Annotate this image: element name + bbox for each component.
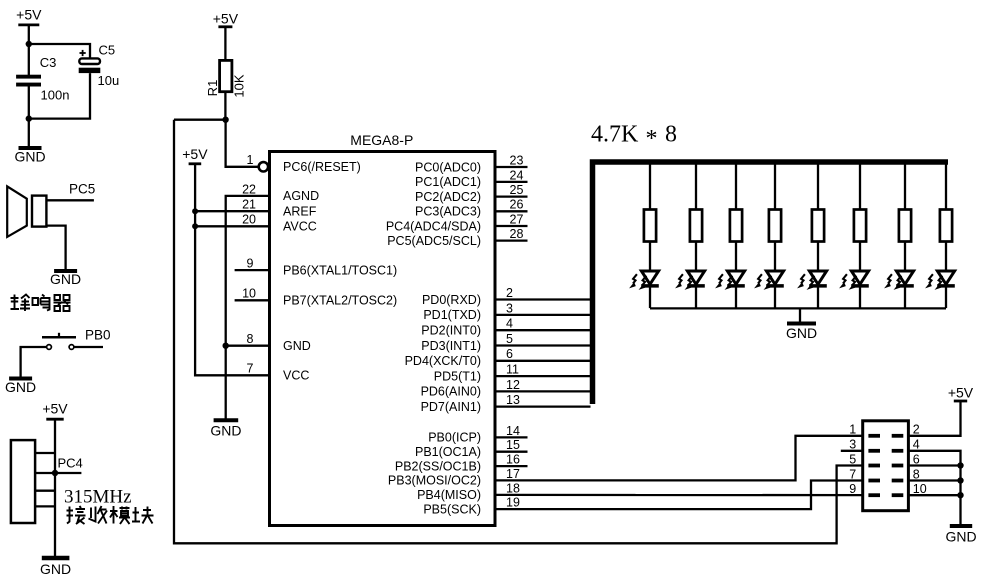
node junction pin 6 [957, 462, 963, 468]
speaker LS (buzzer) horn [7, 186, 27, 237]
svg-text:7: 7 [247, 362, 254, 376]
svg-text:10K: 10K [231, 74, 246, 97]
resistor R1 [205, 60, 246, 97]
svg-text:+5V: +5V [16, 7, 42, 23]
pin 28 PC5(ADC5/SCL) [387, 227, 527, 248]
wire GND pin 8 [226, 345, 270, 347]
pin 13 PD7(AIN1) [421, 393, 591, 414]
wire connector pin 3 stub [841, 450, 863, 452]
svg-text:PB5(SCK): PB5(SCK) [423, 502, 481, 516]
resistor RN8 4.7K [940, 165, 952, 242]
svg-text:5: 5 [506, 332, 513, 346]
resistor RN2 4.7K [690, 165, 702, 242]
svg-text:17: 17 [506, 467, 520, 481]
node junction PC4 [52, 470, 58, 476]
LED D5 [798, 242, 827, 309]
svg-text:16: 16 [506, 453, 520, 467]
pin 3 PD1(TXD) [423, 301, 590, 322]
svg-text:9: 9 [247, 257, 254, 271]
svg-text:20: 20 [242, 213, 256, 227]
wire AGND pin 22 jog down [226, 196, 270, 419]
wire AVCC pin 20 [195, 225, 269, 227]
pin 9 PB6(XTAL1/TOSC1) [235, 257, 398, 278]
pin 15 PB1(OC1A) [415, 438, 528, 459]
svg-text:PD1(TXD): PD1(TXD) [423, 308, 481, 322]
wire +5V stem to node [28, 25, 30, 45]
label 接收模块 (receiver module) [67, 506, 154, 524]
svg-text:18: 18 [506, 481, 520, 495]
resistor RN5 4.7K [812, 165, 824, 242]
svg-text:+5V: +5V [42, 401, 68, 417]
svg-text:AGND: AGND [283, 189, 319, 203]
svg-text:PD6(AIN0): PD6(AIN0) [421, 385, 481, 399]
svg-text:PB7(XTAL2/TOSC2): PB7(XTAL2/TOSC2) [283, 294, 397, 308]
svg-text:10: 10 [242, 287, 256, 301]
pin 6 PD4(XCK/T0) [405, 347, 591, 368]
pin 24 PC1(ADC1) [415, 168, 528, 189]
bus (thick) to resistor network [593, 162, 949, 404]
svg-text:+5V: +5V [182, 146, 208, 162]
node junction pin 10 [957, 492, 963, 498]
node junction GND pin 8 [223, 343, 229, 349]
capacitor C5 (polarized, 10u) [79, 43, 120, 88]
connector J1 pins 1/2 [849, 423, 920, 438]
svg-text:PB0(ICP): PB0(ICP) [428, 431, 481, 445]
svg-text:PC3(ADC3): PC3(ADC3) [415, 205, 481, 219]
svg-text:C5: C5 [99, 43, 116, 58]
svg-text:12: 12 [506, 378, 520, 392]
svg-text:GND: GND [14, 149, 45, 165]
pin 26 PC3(ADC3) [415, 198, 528, 219]
wire connector pin 6 [908, 464, 960, 466]
svg-text:GND: GND [5, 379, 36, 395]
svg-text:11: 11 [506, 363, 519, 377]
node junction C3/C5 top [26, 41, 32, 47]
connector J1 pins 5/6 [849, 452, 920, 467]
resistor RN6 4.7K [854, 165, 866, 242]
wire connector pin 2 to +5V [908, 401, 960, 436]
svg-text:VCC: VCC [283, 369, 309, 383]
svg-text:GND: GND [945, 529, 976, 545]
pin 18 PB4(MISO) [417, 481, 520, 502]
wire node down to C3 [28, 44, 30, 75]
resistor RN4 4.7K [769, 165, 781, 242]
svg-text:GND: GND [786, 325, 817, 341]
svg-text:PC0(ADC0): PC0(ADC0) [415, 160, 481, 174]
svg-text:AREF: AREF [283, 205, 317, 219]
svg-text:14: 14 [506, 424, 520, 438]
svg-text:4.7K: 4.7K [591, 122, 639, 148]
LED D2 [676, 242, 705, 309]
svg-text:10: 10 [913, 482, 927, 496]
svg-text:+5V: +5V [948, 384, 974, 400]
svg-text:PB0: PB0 [85, 328, 111, 343]
svg-text:AVCC: AVCC [283, 220, 317, 234]
wire node to C5 top [29, 44, 90, 58]
wire reset node down to pin 1 [226, 120, 259, 167]
resistor RN1 4.7K [644, 165, 656, 242]
pin 12 PD6(AIN0) [421, 378, 591, 399]
svg-text:3: 3 [849, 438, 856, 452]
wire AREF pin 21 [195, 210, 269, 212]
node junction AVCC [192, 223, 198, 229]
svg-text:10u: 10u [98, 73, 120, 88]
pin 17 PB3(MOSI/OC2) [388, 467, 520, 488]
svg-text:GND: GND [50, 271, 81, 287]
wire connector pin 4 to GND rail [908, 451, 960, 524]
svg-text:PD2(INT0): PD2(INT0) [421, 324, 481, 338]
node junction C3/C5 bottom [26, 115, 32, 121]
svg-text:GND: GND [283, 339, 311, 353]
wire LED cathode rail [650, 307, 946, 309]
wire MOSI pin 17 to connector pin 1 [495, 436, 863, 481]
svg-text:PD4(XCK/T0): PD4(XCK/T0) [405, 354, 481, 368]
speaker driver body [32, 196, 46, 227]
svg-text:1: 1 [247, 153, 254, 167]
svg-text:5: 5 [849, 452, 856, 466]
svg-text:4: 4 [913, 438, 920, 452]
LED D1 [630, 242, 659, 309]
pin 7 VCC [247, 362, 310, 383]
svg-text:PD7(AIN1): PD7(AIN1) [421, 400, 481, 414]
svg-text:*: * [646, 126, 658, 152]
svg-text:19: 19 [506, 496, 520, 510]
svg-text:MEGA8-P: MEGA8-P [350, 132, 413, 148]
svg-text:15: 15 [506, 438, 520, 452]
svg-text:C3: C3 [40, 55, 57, 70]
module U2 315MHz receiver body [11, 440, 35, 523]
svg-text:2: 2 [913, 423, 920, 437]
svg-text:PC4: PC4 [58, 456, 83, 471]
node junction AREF [192, 208, 198, 214]
pin 1 inversion circle [259, 162, 268, 171]
svg-text:9: 9 [849, 482, 856, 496]
power +5V (connector) [948, 384, 974, 401]
svg-text:PB3(MOSI/OC2): PB3(MOSI/OC2) [388, 474, 481, 488]
svg-text:315MHz: 315MHz [64, 487, 132, 508]
wire module +5V rail down to ground [54, 419, 56, 556]
wire C3 bottom to ground [28, 86, 30, 146]
svg-text:PD5(T1): PD5(T1) [434, 369, 481, 383]
svg-text:23: 23 [510, 153, 524, 167]
LED D6 [840, 242, 869, 309]
wire module pin 2 (net PC4) [35, 472, 81, 474]
power +5V (module) [42, 401, 68, 420]
power +5V (R1) [213, 11, 239, 27]
svg-text:+5V: +5V [213, 11, 239, 27]
pin 19 PB5(SCK) [423, 496, 520, 517]
wire +5V to R1 [224, 27, 226, 61]
connector J1 pins 7/8 [849, 467, 920, 482]
pin 11 PD5(T1) [434, 363, 591, 384]
svg-text:PC4(ADC4/SDA): PC4(ADC4/SDA) [386, 219, 481, 233]
pin 27 PC4(ADC4/SDA) [386, 212, 528, 233]
node junction reset [222, 117, 228, 123]
svg-text:PB2(SS/OC1B): PB2(SS/OC1B) [395, 459, 481, 473]
svg-text:PC6(/RESET): PC6(/RESET) [283, 160, 361, 174]
wire speaker top to PC5 [46, 199, 94, 201]
ground (IC) [210, 420, 241, 438]
ground (connector) [945, 526, 976, 545]
svg-text:PB6(XTAL1/TOSC1): PB6(XTAL1/TOSC1) [283, 263, 397, 277]
resistor RN3 4.7K [730, 165, 742, 242]
wire MISO pin 18 to connector pin 9 [495, 494, 863, 497]
svg-text:PC5: PC5 [69, 181, 95, 196]
pin 4 PD2(INT0) [421, 317, 590, 338]
power +5V (analog rail) [182, 146, 208, 164]
wire module pin 4 [35, 505, 55, 507]
connector J1 pins 9/10 [849, 482, 927, 497]
wire connector pin 8 [908, 479, 960, 481]
svg-text:PD0(RXD): PD0(RXD) [422, 293, 481, 307]
svg-text:7: 7 [849, 467, 856, 481]
svg-text:PC1(ADC1): PC1(ADC1) [415, 175, 481, 189]
LED D7 [885, 242, 914, 309]
svg-text:28: 28 [510, 227, 524, 241]
wire module pin 3 [35, 490, 55, 492]
svg-text:8: 8 [665, 122, 677, 148]
pin 25 PC2(ADC2) [415, 183, 528, 204]
svg-text:26: 26 [510, 198, 524, 212]
svg-text:PB4(MISO): PB4(MISO) [417, 488, 481, 502]
svg-text:22: 22 [242, 182, 256, 196]
pin 21 AREF [242, 198, 317, 219]
svg-text:R1: R1 [205, 80, 220, 97]
svg-text:25: 25 [510, 183, 524, 197]
svg-text:24: 24 [510, 168, 524, 182]
ground (top-left) [14, 148, 45, 165]
ground (module) [40, 558, 71, 577]
ground (buzzer) [50, 271, 81, 287]
svg-text:1: 1 [849, 423, 856, 437]
svg-text:100n: 100n [41, 88, 70, 103]
svg-text:PD3(INT1): PD3(INT1) [421, 339, 481, 353]
pin 8 GND [247, 332, 311, 353]
wire connector pin 10 [908, 494, 960, 496]
wire +5V rail down to VCC pin 7 [195, 164, 269, 375]
label 蜂鸣器 (buzzer) [11, 295, 71, 312]
switch PB0 contact circles [47, 345, 52, 350]
svg-text:3: 3 [506, 301, 513, 315]
svg-text:PC2(ADC2): PC2(ADC2) [415, 190, 481, 204]
svg-text:4: 4 [506, 317, 513, 331]
switch PB0 pushbutton actuator [42, 333, 76, 338]
wire switch right (net PB0) [74, 346, 103, 348]
wire reset node to left bus [174, 119, 226, 121]
pin 16 PB2(SS/OC1B) [395, 453, 528, 474]
pin 1 PC6(/RESET) [247, 153, 361, 174]
svg-text:6: 6 [913, 452, 920, 466]
LED D4 [755, 242, 784, 309]
wire R1 bottom to reset node [224, 92, 226, 121]
svg-text:21: 21 [242, 198, 256, 212]
IC U1 MEGA8-P body [270, 152, 496, 526]
pin 23 PC0(ADC0) [415, 153, 528, 174]
pin 14 PB0(ICP) [428, 424, 527, 445]
wire SCK pin 19 to connector pin 7 [495, 481, 863, 510]
svg-text:6: 6 [506, 347, 513, 361]
pin 5 PD3(INT1) [421, 332, 590, 353]
wire rail to ground [799, 308, 801, 322]
pin 2 PD0(RXD) [422, 286, 591, 307]
svg-text:PB1(OC1A): PB1(OC1A) [415, 445, 481, 459]
ground (LED rail) [786, 324, 817, 341]
svg-text:13: 13 [506, 393, 520, 407]
ground (switch) [5, 379, 36, 396]
svg-text:2: 2 [506, 286, 513, 300]
wire reset bus left/bottom to connector pin 5 [174, 120, 863, 544]
wire module pin 1 [35, 452, 55, 454]
svg-text:8: 8 [247, 332, 254, 346]
svg-text:GND: GND [210, 423, 241, 439]
pin 20 AVCC [242, 213, 317, 234]
wire switch left to ground [21, 347, 47, 377]
pin 22 AGND [242, 182, 319, 203]
wire speaker bottom to ground [46, 226, 65, 270]
connector J1 ISP body [863, 421, 909, 511]
svg-text:8: 8 [913, 467, 920, 481]
svg-text:PC5(ADC5/SCL): PC5(ADC5/SCL) [387, 234, 481, 248]
LED D8 [926, 242, 955, 309]
LED D3 [716, 242, 745, 309]
pin 10 PB7(XTAL2/TOSC2) [235, 287, 398, 308]
svg-text:27: 27 [510, 212, 524, 226]
node junction pin 8 [957, 477, 963, 483]
capacitor C3 [16, 55, 69, 103]
svg-text:GND: GND [40, 561, 71, 577]
power +5V (top-left) [16, 7, 42, 25]
label 4.7K * 8 [591, 122, 677, 153]
resistor RN7 4.7K [899, 165, 911, 242]
connector J1 pins 3/4 [849, 438, 920, 453]
wire C5 bottom to node [29, 73, 90, 119]
